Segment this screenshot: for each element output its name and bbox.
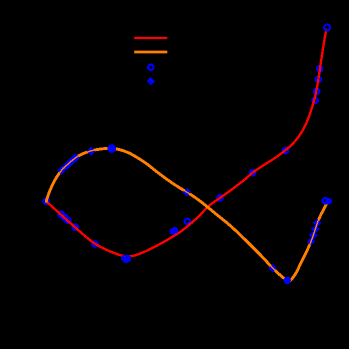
open circle on red rise [217, 195, 222, 200]
filled circle at orange right tip [325, 198, 332, 205]
red curve [46, 30, 326, 257]
open circle companion on red rise [172, 228, 177, 233]
legend filled diamond marker [147, 77, 155, 85]
open circle at left fold point [44, 199, 49, 204]
orange curve [46, 148, 326, 281]
diamond D2 on orange descent [183, 188, 192, 197]
filled circle at orange V bottom [284, 277, 291, 284]
open circle on red rise [185, 219, 190, 224]
diamond D3 near orange V bottom [268, 264, 277, 273]
open circle pair at red valley [122, 256, 127, 261]
filled circle base at red valley pair [123, 257, 130, 264]
filled circle on orange crest [107, 144, 116, 153]
open circle at orange right tip [323, 198, 328, 203]
filled circle base on red rise pair [170, 228, 177, 235]
open circle on red [73, 225, 78, 230]
open circle cluster on red upper-left [59, 212, 71, 223]
orange curve core overlay [46, 148, 326, 281]
legend red line [134, 37, 167, 39]
open circle on red rise [250, 170, 255, 175]
open circle group on steep red segment [312, 66, 322, 103]
diamond D1 on orange [87, 147, 96, 156]
diamond cluster on orange left slope [57, 153, 80, 175]
open circle on red [92, 241, 97, 246]
legend open circle marker [148, 65, 153, 70]
legend orange line [134, 51, 167, 54]
diamond cluster on orange right ascent [307, 219, 322, 246]
open circle on red rise [283, 148, 288, 153]
open circle at red top tip [324, 25, 330, 31]
